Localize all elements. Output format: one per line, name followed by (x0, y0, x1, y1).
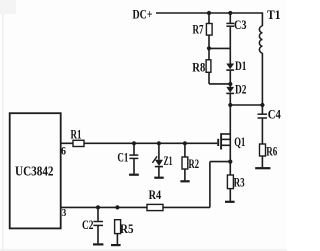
svg-text:DC+: DC+ (133, 6, 153, 21)
svg-text:UC3842: UC3842 (15, 165, 54, 180)
svg-text:R4: R4 (149, 187, 162, 202)
svg-text:Z1: Z1 (164, 153, 173, 168)
svg-text:3: 3 (62, 208, 67, 219)
svg-text:C1: C1 (117, 150, 128, 165)
svg-text:R6: R6 (266, 144, 277, 159)
svg-text:D1: D1 (235, 58, 247, 73)
svg-text:R7: R7 (193, 21, 204, 36)
svg-text:Q1: Q1 (234, 134, 245, 149)
svg-text:T1: T1 (267, 7, 281, 22)
svg-text:D2: D2 (235, 82, 247, 97)
svg-text:C4: C4 (268, 107, 281, 122)
svg-text:R2: R2 (189, 156, 200, 171)
svg-text:R1: R1 (71, 126, 82, 141)
svg-text:C3: C3 (234, 17, 247, 32)
svg-text:R5: R5 (120, 221, 134, 236)
svg-text:C2: C2 (82, 217, 94, 232)
svg-text:R8: R8 (192, 59, 205, 74)
svg-text:6: 6 (61, 144, 66, 158)
svg-text:R3: R3 (234, 174, 245, 189)
